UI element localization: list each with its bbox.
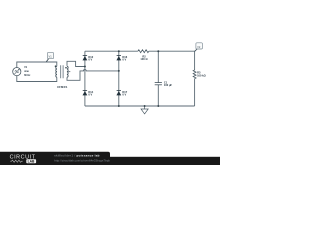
probe flag right <box>195 43 203 52</box>
node bottom rail junction at right rail <box>118 105 120 107</box>
diode D14 (bottom-left) <box>83 90 88 95</box>
voltage source V1 <box>13 68 21 76</box>
transformer XFMR1 <box>56 65 71 78</box>
label R3 100 kOhm <box>197 70 206 77</box>
svg-text:http://circuitlab.com/c/nvm64e: http://circuitlab.com/c/nvm64e33bcgs7bqk <box>54 159 110 163</box>
capacitor C1 <box>155 83 162 85</box>
resistor R2 <box>138 50 149 53</box>
diode D16 (top-right) <box>116 55 121 60</box>
footer tab <box>0 152 110 165</box>
probe flag left <box>46 52 53 61</box>
footer strip <box>0 157 220 165</box>
phase dot primary <box>55 65 57 67</box>
wire secondary top to bridge <box>67 61 85 66</box>
node AC2 junction <box>118 70 120 72</box>
svg-text:V1: V1 <box>49 54 53 58</box>
label D17 <box>122 90 127 97</box>
svg-text:0 V: 0 V <box>88 93 92 97</box>
wire bridge left rail <box>84 51 86 106</box>
svg-text:100 kΩ: 100 kΩ <box>197 73 206 77</box>
svg-text:XFMR1: XFMR1 <box>57 85 68 89</box>
wire source top loop <box>17 62 57 68</box>
label D12 <box>88 55 93 62</box>
core <box>61 65 63 78</box>
wire source bottom loop <box>17 76 57 82</box>
label V1 sine 60 Hz <box>24 66 31 77</box>
label R2 100 Ohm <box>140 54 147 61</box>
resistor R3 <box>193 70 196 79</box>
wire R3 bottom to bottom rail <box>194 79 196 106</box>
node C1 bottom junction <box>157 105 159 107</box>
secondary coil <box>67 66 68 77</box>
svg-text:100 Ω: 100 Ω <box>140 57 147 61</box>
label C1 100 uF <box>164 80 173 87</box>
wire top rail to R2 <box>85 50 138 52</box>
wire capacitor C1 leads <box>157 51 159 106</box>
ground <box>141 106 148 114</box>
svg-text:0 V: 0 V <box>122 93 126 97</box>
svg-text:skillbuilder1 / puissance lab: skillbuilder1 / puissance lab <box>54 153 100 157</box>
svg-text:LAB: LAB <box>28 160 35 164</box>
svg-text:0 V: 0 V <box>122 58 126 62</box>
label D14 <box>88 90 93 97</box>
wire secondary bottom with hop over left rail <box>67 70 119 81</box>
diode D12 (top-left) <box>83 55 88 60</box>
wire R2 to right corner <box>149 51 195 70</box>
center tap stub <box>68 71 70 73</box>
svg-text:V2: V2 <box>197 45 201 49</box>
node ground junction <box>144 105 146 107</box>
diode D17 (bottom-right) <box>116 90 121 95</box>
node C1 top junction <box>157 50 159 52</box>
wire bridge right rail <box>118 51 120 106</box>
node top rail junction at right rail <box>118 50 120 52</box>
svg-text:0 V: 0 V <box>88 58 92 62</box>
label D16 <box>122 55 127 62</box>
circuitlab logo <box>10 154 36 163</box>
phase dot secondary <box>65 67 67 69</box>
svg-text:100 µF: 100 µF <box>164 83 173 87</box>
wire bottom rail <box>85 105 195 107</box>
node AC1 junction <box>84 66 86 68</box>
primary coil <box>56 66 57 77</box>
svg-text:sine: sine <box>24 70 29 73</box>
svg-text:60 Hz: 60 Hz <box>24 74 31 77</box>
